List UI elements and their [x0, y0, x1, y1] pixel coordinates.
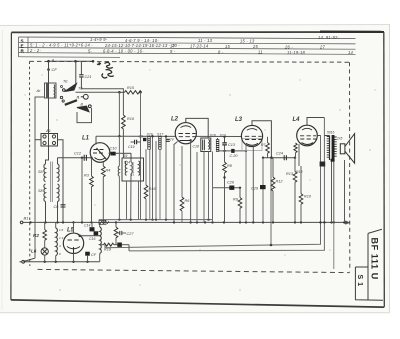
hatched link S15b: [99, 220, 109, 224]
resistor R2: [33, 222, 47, 248]
capacitor C24: [276, 152, 286, 161]
svg-text:2 - 2-: 2 - 2-: [29, 48, 41, 53]
table header letters (rotated): [21, 39, 25, 54]
node dot on AVC bus: [165, 135, 167, 137]
IF can shadow box: [242, 139, 262, 151]
wire drop to dashed edge: [333, 222, 335, 269]
svg-text:C19: C19: [128, 145, 134, 149]
svg-text:11 - 13: 11 - 13: [198, 38, 213, 43]
svg-text:S 1: S 1: [356, 275, 363, 287]
svg-text:R12: R12: [276, 180, 284, 184]
node dots ground bus middle: [173, 221, 175, 223]
scan speckle noise: [24, 61, 375, 290]
svg-text:R19: R19: [104, 248, 112, 252]
wire L5 anode to rectifier block: [80, 235, 100, 237]
wire osc coil top to detector line: [57, 158, 59, 164]
wire arrow to chassis edge: [345, 221, 350, 224]
svg-text:L3: L3: [235, 117, 243, 123]
svg-text:A: A: [51, 58, 55, 63]
wire signal bus AVC: [96, 135, 176, 137]
resistor R4: [102, 162, 111, 222]
wire L5 bottom: [73, 253, 75, 261]
type label box BF 111 U: [355, 229, 383, 300]
svg-text:14: 14: [348, 50, 354, 55]
trimmer indicator circle: [78, 94, 89, 99]
svg-text:25: 25: [252, 44, 259, 49]
speaker: [340, 134, 354, 164]
svg-text:S17: S17: [157, 133, 164, 137]
svg-text:Ar: Ar: [36, 88, 42, 93]
wire L2 grid return: [174, 142, 178, 223]
wire anode coupling line: [263, 157, 295, 159]
svg-text:L2: L2: [171, 117, 179, 123]
wire L3 anode loop: [252, 121, 271, 158]
parts table: [19, 37, 356, 57]
resistor R13: [286, 158, 297, 223]
coil S14: [131, 162, 132, 173]
resistor R12: [271, 158, 283, 223]
svg-text:6-8-4 - 10 - 00 - 16-: 6-8-4 - 10 - 00 - 16-: [103, 49, 144, 54]
svg-text:C18: C18: [193, 145, 199, 149]
wire coupling lower line: [218, 150, 248, 152]
wire drop from C12 node: [81, 158, 83, 223]
wire secondary legs: [332, 162, 334, 223]
wire L1 grid line: [58, 157, 91, 159]
svg-text:C29: C29: [251, 187, 259, 191]
wire L3 cathode legs: [247, 145, 254, 222]
svg-text:R2: R2: [33, 233, 39, 238]
wire L4 screen to rail: [317, 135, 320, 137]
wire contact drop: [75, 61, 77, 84]
svg-text:R4: R4: [106, 169, 111, 173]
svg-text:R18: R18: [296, 170, 302, 174]
wire L4 anode loop: [307, 118, 324, 126]
svg-text:C14: C14: [84, 224, 90, 228]
capacitor C19: [128, 140, 140, 149]
node dots ground bus left: [44, 221, 46, 223]
chassis dashed boundary box: [30, 61, 350, 272]
resistor R11 vertical: [114, 222, 118, 244]
barretter coil: [56, 222, 58, 261]
wire signal bus to L3: [197, 135, 243, 137]
wire speaker return: [344, 160, 346, 222]
svg-text:A1: A1: [45, 128, 51, 133]
svg-text:L1: L1: [82, 136, 90, 142]
wire mid drops: [153, 136, 167, 219]
svg-text:C13: C13: [228, 143, 236, 147]
component A1 padder block: [41, 134, 58, 147]
wire transformer top link: [324, 135, 329, 137]
svg-text:1.6: 1.6: [59, 228, 64, 232]
table row 2 values: [30, 43, 326, 50]
node dots coupling: [270, 156, 273, 159]
IF can box: [122, 158, 144, 181]
resistor R6: [180, 146, 190, 222]
node dots secondary bus: [118, 219, 120, 221]
wire heater line: [23, 261, 100, 263]
capacitor C27: [116, 231, 134, 236]
wire switch to R16 rail: [81, 89, 123, 115]
svg-text:BF 111 U: BF 111 U: [370, 238, 380, 280]
node L5 anode cap: [79, 235, 82, 238]
wire L2 anode loop: [186, 118, 208, 138]
svg-text:B1: B1: [24, 215, 29, 220]
capacitor C14: [84, 222, 95, 231]
svg-text:24-15-12-10-7-14-19-16-12-13 -: 24-15-12-10-7-14-19-16-12-13 - 20 -: [104, 43, 180, 48]
wire coupling down to HT: [270, 158, 272, 245]
svg-text:R16: R16: [127, 117, 135, 121]
coil S15 small: [118, 166, 119, 176]
node dots top rail: [47, 60, 50, 63]
capacitor C28 block: [117, 243, 129, 251]
wire ground bus: [23, 221, 345, 223]
coil S19: [216, 133, 225, 151]
svg-text:15 - 13: 15 - 13: [240, 39, 255, 44]
node dot HT lower: [270, 244, 273, 247]
svg-text:1: 1: [78, 96, 80, 100]
capacitor C16: [89, 231, 98, 241]
svg-text:1.3: 1.3: [59, 236, 64, 240]
wire L2 cathode down: [190, 140, 192, 222]
svg-text:5016: 5016: [327, 131, 335, 135]
svg-text:R15: R15: [127, 86, 135, 90]
svg-text:TE: TE: [63, 80, 68, 84]
node dots on grid line: [81, 157, 83, 159]
capacitor C29: [251, 185, 266, 191]
valve L5 rectifier: [63, 233, 83, 253]
node dots ground bus right: [319, 221, 321, 223]
IF transformer 2: [201, 138, 211, 152]
svg-text:C9: C9: [139, 135, 144, 139]
svg-text:R13: R13: [286, 172, 294, 176]
node dot R8 tap: [223, 176, 225, 178]
capacitor C26: [213, 181, 241, 190]
wire R15 right leg down: [140, 92, 142, 219]
resistor R17 grid: [261, 137, 269, 158]
wire S14 to bus: [130, 174, 132, 220]
svg-text:C26: C26: [227, 181, 235, 185]
svg-text:11: 11: [258, 50, 263, 55]
band switch contacts TE: [61, 80, 84, 92]
svg-text:8 -: 8 -: [218, 49, 224, 54]
svg-text:C21: C21: [85, 75, 92, 79]
valve L3: [241, 125, 262, 146]
wire S17 leg: [159, 149, 161, 219]
wire A1 right down: [58, 140, 64, 223]
node A aerial terminal: [51, 58, 55, 63]
wire switch lower to R15: [76, 91, 120, 93]
oscillator coil pack S6 S8: [44, 162, 59, 203]
label winding taps: [59, 228, 64, 256]
table row 1 values: [90, 35, 340, 43]
svg-text:17-23-14: 17-23-14: [190, 44, 209, 49]
svg-text:2x5: 2x5: [336, 137, 342, 141]
svg-text:L6: L6: [31, 249, 37, 254]
wire switch frame: [77, 108, 92, 123]
resistor R19: [100, 243, 118, 251]
wire screen vertical: [245, 145, 247, 222]
capacitor C9: [139, 135, 147, 142]
svg-text:CF: CF: [52, 67, 58, 72]
coil S17: [157, 133, 164, 150]
resistor R15: [118, 86, 142, 94]
svg-text:R10: R10: [304, 195, 312, 199]
svg-text:C10: C10: [110, 147, 118, 151]
svg-text:27: 27: [319, 45, 326, 50]
capacitor C10 (block): [109, 147, 132, 156]
wire osc coils to ground bus: [46, 202, 58, 223]
border frame: [11, 32, 384, 308]
wire transformer bottom: [331, 159, 335, 162]
aerial coil Ae: [45, 83, 57, 98]
wire L4 grid choke: [298, 144, 300, 166]
node dots heater line: [44, 261, 46, 263]
valve L2: [175, 123, 196, 144]
svg-text:14. 91-92-: 14. 91-92-: [318, 35, 340, 40]
svg-text:S9: S9: [123, 154, 127, 158]
svg-text:C12: C12: [74, 152, 82, 156]
wire A1 left: [35, 139, 41, 141]
wire left branch to switch: [35, 97, 45, 258]
capacitor CF mains: [85, 252, 97, 262]
svg-text:1-4+9 9-: 1-4+9 9-: [90, 37, 108, 42]
wire HT feed lower B: [129, 118, 324, 251]
resistor R10: [299, 166, 312, 222]
mains switch: [20, 258, 35, 263]
capacitor TF: [166, 138, 175, 142]
svg-text:4-6-7 9 - 14- 10-: 4-6-7 9 - 14- 10-: [125, 38, 159, 43]
valve L1: [90, 143, 110, 163]
svg-text:26 -: 26 -: [284, 44, 293, 49]
wire top rail at dashed edge: [49, 60, 94, 62]
svg-text:C16: C16: [89, 237, 95, 241]
resistor R3: [84, 158, 93, 223]
svg-text:5-: 5-: [88, 48, 93, 53]
svg-text:S18: S18: [210, 134, 216, 138]
wire drop to ground via C29: [262, 158, 264, 223]
svg-text:C24: C24: [276, 152, 283, 156]
wire R15 left node down: [118, 92, 120, 136]
capacitor block on output pair: [320, 162, 326, 167]
wire L1 anode up: [95, 136, 97, 144]
output transformer primary: [327, 135, 337, 161]
capacitor C20: [230, 149, 239, 158]
coil S16: [147, 133, 153, 150]
node dot on AVC rail: [118, 135, 120, 137]
svg-text:9 -: 9 -: [170, 49, 176, 54]
svg-text:CF: CF: [91, 253, 97, 257]
svg-text:L4: L4: [293, 117, 301, 123]
svg-text:17: 17: [170, 43, 176, 48]
wire IF can legs: [127, 92, 144, 220]
wire S15 drop: [118, 136, 120, 219]
table row 3 values: [29, 48, 354, 55]
band switch wedge B: [77, 103, 91, 112]
resistor R16: [122, 115, 135, 158]
valve L4: [297, 125, 318, 146]
wire aerial down: [48, 61, 50, 83]
wire secondary bus: [99, 219, 213, 221]
svg-text:5: 1 - 2 - 4-9 5 - 11+9-2+6-: 5: 1 - 2 - 4-9 5 - 11+9-2+6-14 -: [30, 43, 93, 48]
alignment scribble 60 70: [97, 62, 114, 78]
wire IF feed down: [130, 153, 132, 162]
wire HT-A left end: [104, 245, 106, 248]
capacitor C8: [54, 205, 66, 209]
svg-text:C.20: C.20: [230, 154, 239, 158]
capacitor C12: [74, 152, 86, 161]
capacitor CF aerial: [52, 67, 58, 72]
terminal B1 circle: [20, 221, 23, 224]
resistor R9: [233, 188, 242, 223]
wire coil to oscillator coils: [46, 98, 49, 164]
svg-text:15: 15: [225, 44, 231, 49]
wire IF2 legs: [197, 152, 213, 223]
smoothing choke coil: [100, 222, 102, 261]
capacitor C21: [79, 61, 91, 89]
node L2 cathode: [189, 139, 191, 141]
capacitor C13: [222, 136, 236, 147]
resistor R13 upper: [294, 143, 297, 158]
wire S16 leg: [149, 149, 151, 219]
band switch contacts N: [60, 96, 79, 105]
wire L5 top to bus: [73, 222, 75, 233]
wire HT feed lower A: [105, 135, 321, 248]
resistor R14: [144, 149, 156, 219]
svg-text:C27: C27: [127, 232, 135, 236]
node B1: [29, 221, 31, 223]
svg-text:11-19-18: 11-19-18: [287, 50, 306, 55]
pilot lamp L6: [31, 248, 48, 262]
resistor R8: [223, 145, 233, 222]
